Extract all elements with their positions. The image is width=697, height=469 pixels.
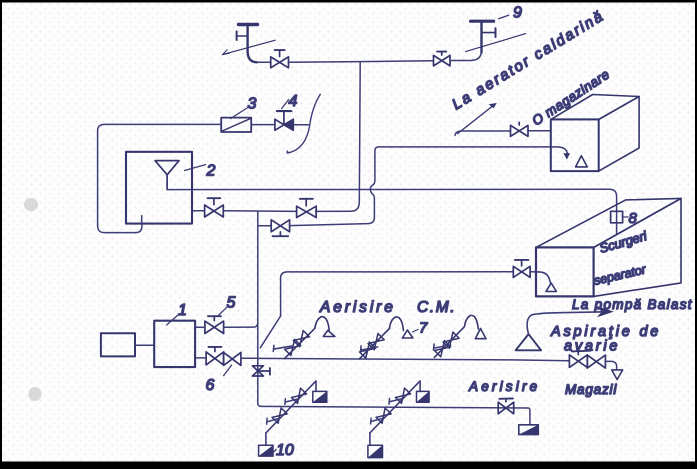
wire valve to separator [530,271,536,273]
valve 6 (double) [206,347,241,366]
svg-text:9: 9 [513,5,522,22]
label 3 [231,107,249,119]
tank 1 small box [101,333,135,356]
label 9 [499,15,509,18]
curl [455,131,460,136]
arrowhead down [563,153,570,160]
stem branch2 [361,346,378,352]
wire pump to valve6 [195,357,206,359]
label 8 [623,216,628,218]
svg-text:4: 4 [289,93,298,110]
pump unit 1 [154,321,195,367]
wire connector [135,344,154,346]
wire box2 to valve [192,210,205,212]
label 4 [282,100,289,109]
main suction manifold wire [258,358,569,360]
svg-text:Aerisire: Aerisire [319,299,396,316]
bilge branch B pipe [370,381,420,433]
valve branch1 upper [293,331,309,347]
filter 8 on separator top [611,211,623,223]
valve storage feed [511,122,529,136]
arrowhead ballast [597,306,614,317]
vent branch 3 pipe [434,315,486,357]
svg-text:Scurgeri: Scurgeri [598,228,650,256]
wire main end [605,361,616,369]
wire strainer to valve4 [251,124,275,126]
stem branch3 [434,344,451,350]
wire top header left [257,61,271,63]
valve top-right [434,52,451,66]
svg-text:C.M.: C.M. [417,299,456,316]
wire storage feed upper [460,130,550,132]
svg-text:6: 6 [206,377,215,394]
wire pump to valve5 [195,326,205,328]
label 7 [413,330,419,333]
label 5 [219,307,227,315]
valve branch2 lower [360,342,376,358]
svg-text:separator: separator [593,262,648,288]
valve box2 outlet [205,198,224,217]
svg-text:7: 7 [419,320,428,337]
storage tank box (O magazinare) [551,95,639,172]
tank B top hatched [417,391,430,402]
wire valve4 out [293,124,308,126]
valve branch3 lower [435,341,451,357]
wire to right vent [450,53,481,61]
svg-text:5: 5 [227,295,236,312]
tank 2 (box with funnel) [126,152,192,224]
valve top-left [271,50,289,68]
drain funnel main end [612,370,623,380]
valve on riser [252,366,270,376]
svg-text:1: 1 [178,302,187,319]
valve main double [569,351,605,368]
wire to storage tank inlet [378,147,567,156]
valve branchA upper [291,388,306,403]
label 1 [167,314,180,325]
stem branch1 [273,345,291,351]
valve branch1 lower [285,339,301,355]
svg-text:Aerisire: Aerisire [468,379,540,394]
svg-text:Magazii: Magazii [565,382,617,397]
hole punch bottom [28,387,41,401]
bellmouth emergency suction [516,334,542,350]
wire top header [289,61,434,62]
wire valve5 to riser [224,323,258,328]
wire y211 [316,210,352,212]
arrow la aerator [458,105,495,134]
valve 4 (non-return) [275,111,293,130]
wire y211 mid [223,210,297,213]
funnel in separator [546,283,556,291]
label 6 [224,365,232,376]
wire riser to valve down-stem [258,225,271,227]
wire valve6 to riser [241,357,258,359]
vent branch 1 pipe [284,317,335,359]
wire to storage riser [290,147,379,226]
valve separator inlet [513,260,530,278]
label 2 [185,165,206,171]
label 10 [270,449,276,455]
funnel in storage tank [576,156,588,167]
air vent head 9 [466,21,526,52]
svg-text:2: 2 [206,163,216,180]
wire drain from funnel to separator inlet [167,189,616,233]
stem branchB upper [389,398,402,404]
stem branchA upper [285,399,298,405]
bilge branch A pipe [266,381,316,433]
lower manifold wire [261,406,530,424]
wire to ballast pump [527,312,606,334]
valve branch2 upper [368,334,384,350]
stem branchB lower [371,418,384,424]
tank magazii hatched [519,425,539,435]
wire drop from header [352,62,361,212]
valve mid-right [297,199,317,218]
tank B bottom hatched [368,445,383,457]
hole punch top [24,198,38,211]
wire inside separator [536,272,551,283]
chamfer wire join [260,316,280,348]
valve 5 [205,316,224,333]
vent branch 2 pipe [359,317,413,359]
tank A bottom hatched [259,445,273,456]
svg-text:La pompă Balast: La pompă Balast [572,297,693,312]
valve branchA lower [272,408,287,423]
valve branchB lower [376,408,391,423]
branch elbow to separator line [281,272,514,316]
stub into tank2 bottom [141,216,143,224]
svg-text:3: 3 [248,96,257,113]
stem branchA lower [267,418,280,424]
separator tank box (Scurgeri separator) [536,198,681,296]
riser wire (vertical main) [258,212,261,406]
hose curve [287,94,320,153]
valve branch3 upper [443,332,459,348]
air vent head left [223,25,276,63]
valve magazii [498,399,514,414]
valve branchB upper [395,388,410,403]
strainer 3 [221,118,251,132]
svg-text:10: 10 [276,442,294,459]
valve down-stem [271,220,289,236]
tank A top hatched [313,391,327,402]
outer loop wire from header2 [98,124,222,232]
